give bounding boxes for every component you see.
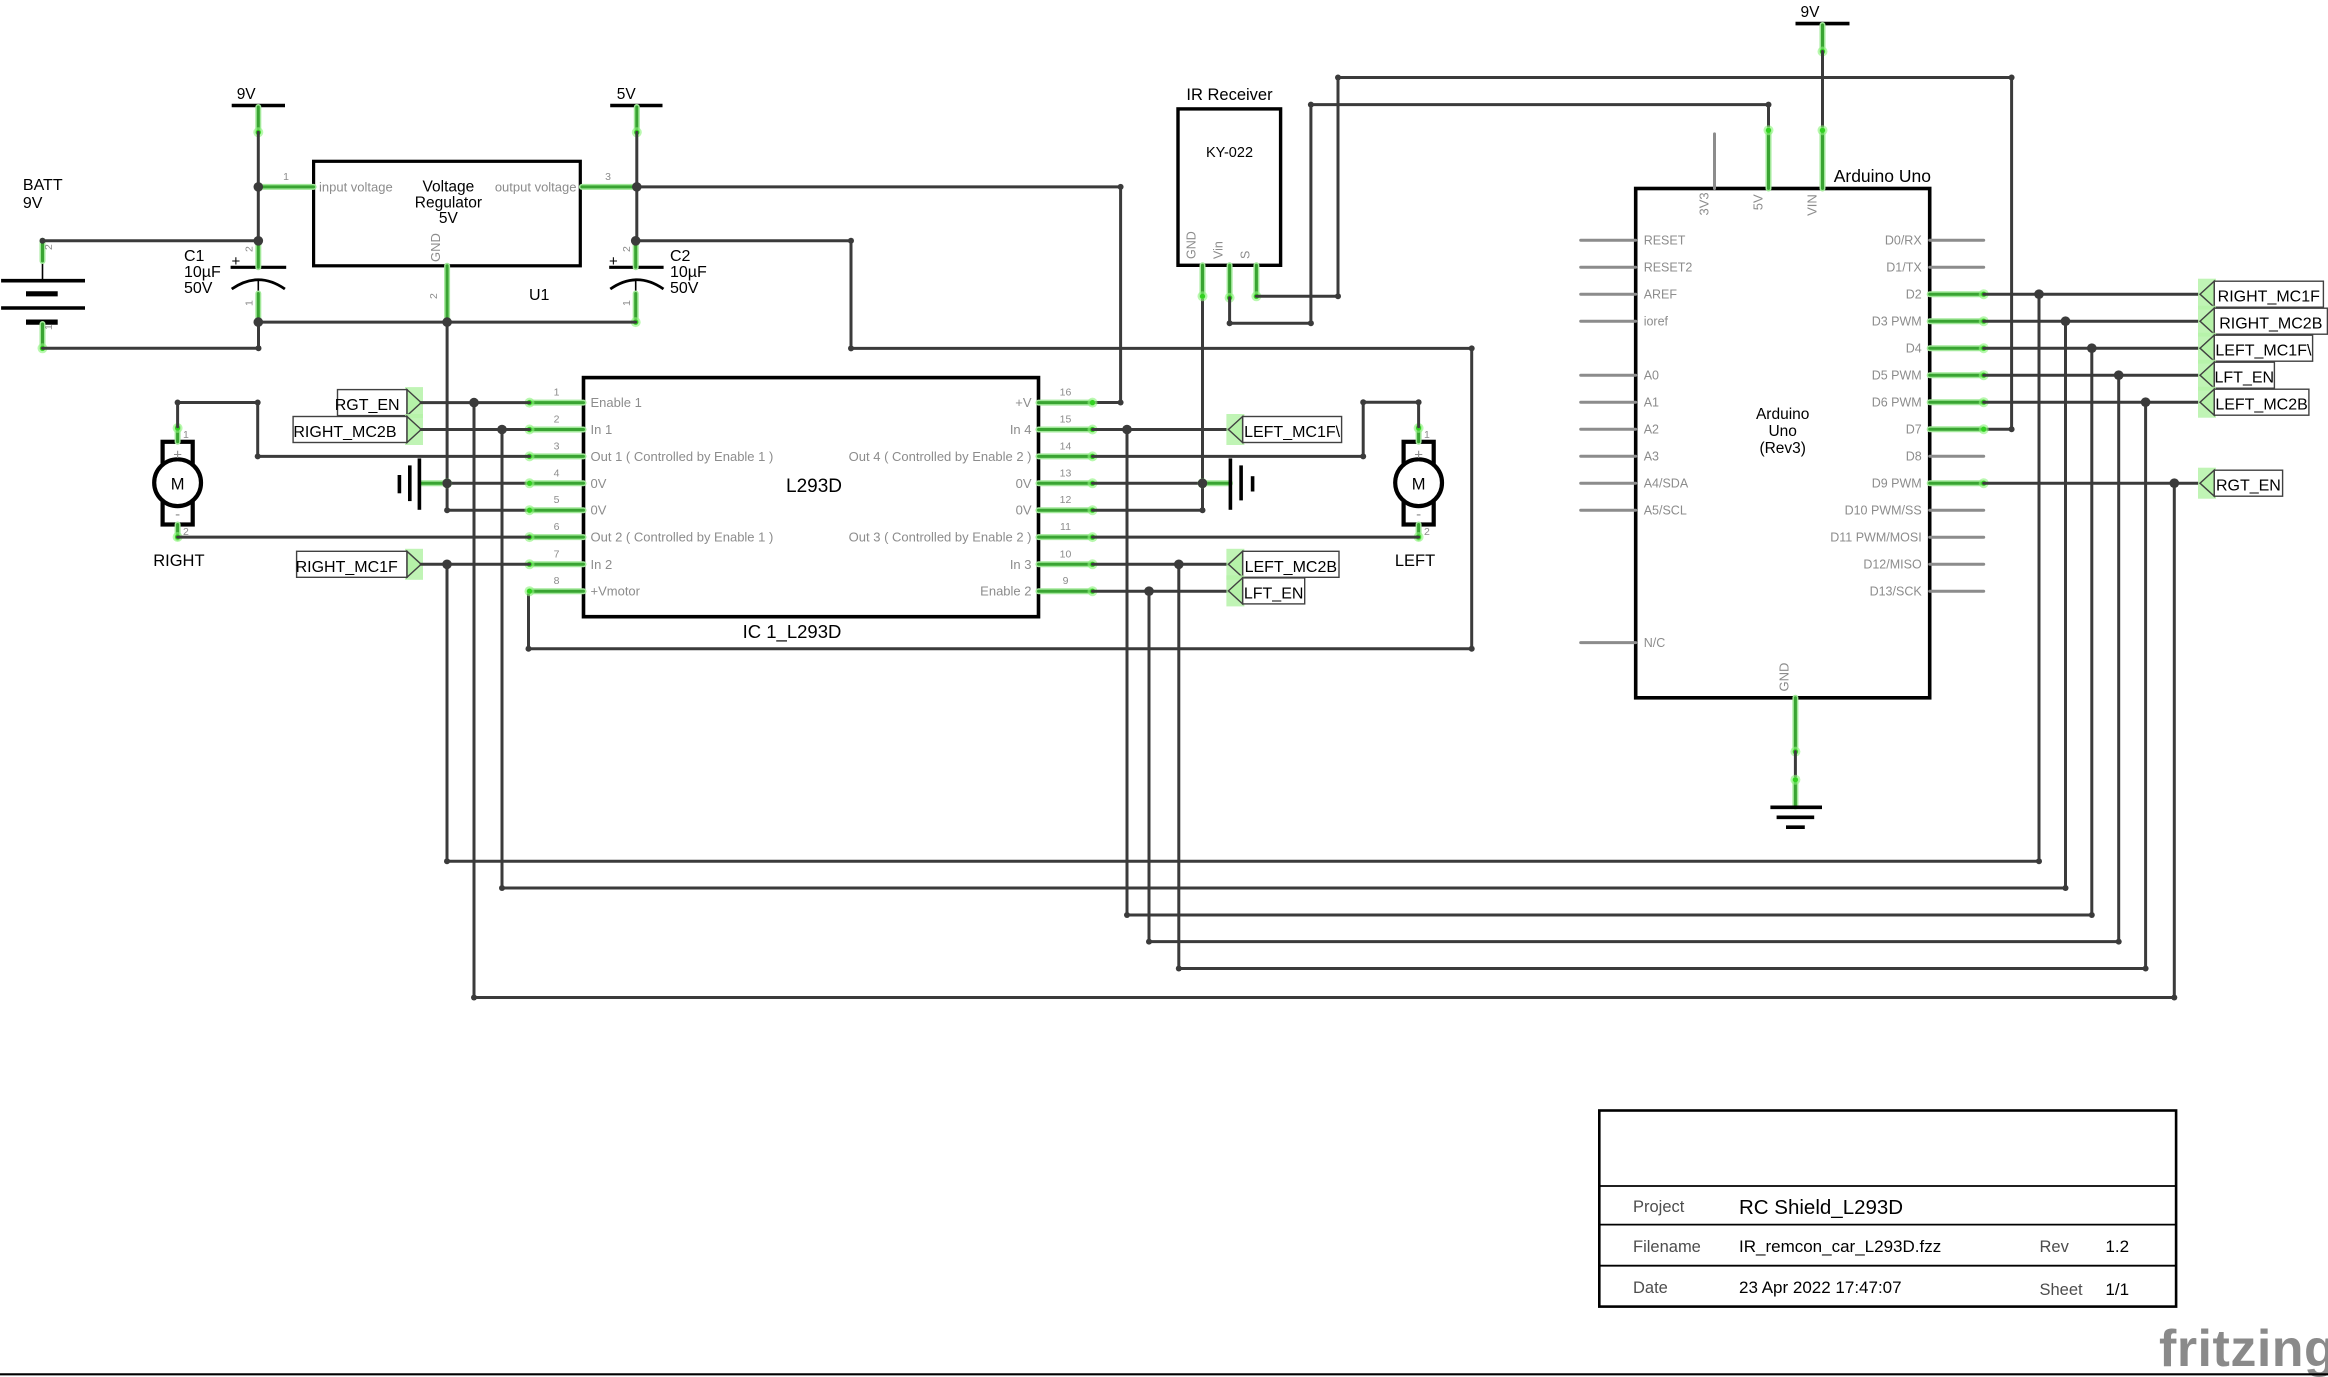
C1 pin number 2 (244, 246, 256, 252)
svg-text:Rev: Rev (2040, 1238, 2070, 1256)
net label LEFT_MC2B (ic side) (1226, 549, 1339, 580)
U1 title Regulator (415, 195, 482, 212)
svg-text:Arduino Uno: Arduino Uno (1834, 166, 1931, 186)
svg-text:6: 6 (554, 521, 560, 533)
svg-text:2: 2 (1424, 526, 1430, 538)
arduino pin label RESET (1644, 234, 1686, 248)
svg-text:Arduino: Arduino (1756, 406, 1809, 423)
svg-text:Out 2 ( Controlled by Enable 1: Out 2 ( Controlled by Enable 1 ) (591, 530, 774, 545)
svg-text:D6 PWM: D6 PWM (1872, 396, 1922, 410)
junction 9V / regulator input (253, 182, 263, 192)
arduino pin stub RESET (1581, 239, 1636, 242)
svg-text:10: 10 (1060, 548, 1072, 560)
svg-text:Out 1 ( Controlled by Enable 1: Out 1 ( Controlled by Enable 1 ) (591, 449, 774, 464)
svg-text:2: 2 (428, 293, 440, 299)
motor LEFT plus (1414, 447, 1423, 464)
svg-text:BATT: BATT (23, 177, 63, 194)
svg-text:L293D: L293D (786, 476, 842, 497)
svg-text:output voltage: output voltage (495, 180, 577, 195)
IC1 pin number 12 (1060, 494, 1072, 506)
wire ground to pin 5 (0V) (447, 509, 529, 512)
arduino pin label D1/TX (1886, 261, 1922, 275)
wire Out4 riser (1362, 402, 1365, 456)
svg-text:+: + (609, 253, 618, 270)
wire LFT_EN vertical (1148, 591, 1151, 941)
motor RIGHT terminals (163, 442, 193, 525)
svg-text:LEFT_MC1F\: LEFT_MC1F\ (1244, 424, 1341, 441)
IC1 pin 2 (In 1) (525, 425, 584, 435)
arduino inner label (Rev3) (1759, 440, 1806, 457)
arduino pin D6 PWM (1930, 397, 1989, 407)
IC1 pin label Enable 1 (591, 395, 642, 410)
net label LFT_EN (right) (2198, 360, 2274, 391)
node Out4 corner low (1360, 453, 1366, 459)
svg-text:Sheet: Sheet (2040, 1281, 2084, 1299)
node LEFT_MC1F bottom right corner (2089, 912, 2095, 918)
KY-022 pin label S (rotated) (1238, 251, 1252, 259)
svg-text:16: 16 (1060, 387, 1072, 399)
svg-text:0V: 0V (591, 503, 607, 518)
svg-text:IC 1_L293D: IC 1_L293D (743, 621, 842, 643)
IC1 pin 6 (Out 2 ( Controlled by Enable 1 )) (525, 532, 584, 542)
svg-text:D10 PWM/SS: D10 PWM/SS (1845, 504, 1922, 518)
arduino pin label A1 (1644, 396, 1659, 410)
motor RIGHT plus (173, 447, 182, 464)
node Vmotor bottom right corner (1469, 646, 1475, 652)
svg-text:In 4: In 4 (1010, 422, 1032, 437)
node RIGHT_MC2B bottom right corner (2063, 885, 2069, 891)
svg-text:1: 1 (43, 324, 55, 330)
capacitor C1 value 50V (184, 280, 213, 297)
svg-text:(Rev3): (Rev3) (1759, 440, 1806, 457)
node RGT_EN bottom left corner (471, 995, 477, 1001)
svg-text:13: 13 (1060, 467, 1072, 479)
capacitor C2 pin 1 (631, 294, 641, 328)
svg-text:1/1: 1/1 (2105, 1280, 2129, 1299)
motor LEFT minus (1416, 506, 1421, 523)
wire 5V run to L293D +V (vertical) (1119, 187, 1122, 403)
svg-text:0V: 0V (1016, 476, 1032, 491)
node Vin top left corner (1308, 102, 1314, 108)
wire LFT_EN right riser (2117, 375, 2120, 941)
wire ground bus C1 to C2 (258, 321, 635, 324)
net label RIGHT_MC2B (right) (2198, 306, 2327, 337)
wire Vmotor top run (851, 347, 1472, 350)
arduino pin label N/C (1644, 636, 1666, 650)
svg-text:Project: Project (1633, 1198, 1685, 1216)
wire RIGHT_MC2B vertical (501, 430, 504, 889)
node Vmotor run corner left (848, 345, 854, 351)
IC1 pin number 16 (1060, 387, 1072, 399)
node LEFT_MC2B bottom right corner (2143, 966, 2149, 972)
IC1 pin number 13 (1060, 467, 1072, 479)
arduino pin stub 3V3 (1713, 134, 1716, 189)
motor RIGHT pin number 1 (183, 429, 189, 441)
wire S top run (1338, 76, 2012, 79)
junction C2 pin2 node (631, 236, 641, 246)
IC1 pin label +V (1015, 395, 1032, 410)
wire D7 riser (2010, 78, 2013, 430)
wire D2 to RIGHT_MC1F label (1984, 293, 2199, 296)
svg-text:Voltage: Voltage (423, 179, 475, 196)
svg-text:1: 1 (183, 429, 189, 441)
ground symbol (earth, below arduino) (1770, 807, 1822, 827)
capacitor C2 plates (609, 267, 663, 293)
ir receiver KY-022 body (1178, 109, 1281, 265)
arduino pin label A2 (1644, 423, 1659, 437)
svg-text:D9 PWM: D9 PWM (1872, 477, 1922, 491)
title block value IR_remcon_car_L293D.fzz (1739, 1237, 1941, 1256)
wire Out4 pin14 run (1093, 455, 1364, 458)
capacitor C1 pin 1 (255, 294, 261, 323)
svg-text:23 Apr 2022 17:47:07: 23 Apr 2022 17:47:07 (1739, 1278, 1902, 1297)
arduino pin VIN (1818, 125, 1828, 188)
arduino pin stub AREF (1581, 293, 1636, 296)
svg-text:0V: 0V (591, 476, 607, 491)
node LEFT_MC2B bottom left corner (1176, 966, 1182, 972)
motor RIGHT pin 1 (173, 423, 183, 442)
node RGT_EN bottom right corner (2171, 995, 2177, 1001)
IC1 pin 12 (0V) (1039, 505, 1098, 515)
IC1 pin 13 (0V) (1039, 478, 1098, 488)
IC1 pin number 11 (1060, 521, 1071, 533)
svg-text:14: 14 (1060, 440, 1072, 452)
wire 9V bar to regulator input junction (257, 132, 260, 187)
arduino pin stub A5/SCL (1581, 509, 1636, 512)
wire RGT_EN right riser (2173, 483, 2176, 997)
title block value date (1739, 1278, 1902, 1297)
ic IC1 L293D body (584, 378, 1039, 617)
svg-text:N/C: N/C (1644, 636, 1666, 650)
svg-text:In 1: In 1 (591, 422, 613, 437)
svg-text:9V: 9V (23, 195, 43, 212)
IC1 pin 15 (In 4) (1039, 425, 1098, 435)
U1 pin number 3 (605, 171, 611, 183)
svg-text:10µF: 10µF (670, 264, 707, 281)
motor LEFT M (1412, 476, 1426, 494)
wire S riser (1337, 78, 1340, 297)
junction D2 riser (2034, 289, 2044, 299)
svg-text:2: 2 (43, 244, 55, 250)
arduino pin stub RESET2 (1581, 266, 1636, 269)
wire KY-022 GND vertical (1201, 296, 1204, 510)
svg-text:D0/RX: D0/RX (1885, 234, 1922, 248)
wire LEFT_MC2B right riser (2144, 402, 2147, 968)
wire LEFT_MC2B vertical (1177, 564, 1180, 968)
wire regulator input junction down to C1 junction (257, 187, 260, 241)
U1 pin number 2 (428, 293, 440, 299)
svg-text:+V: +V (1015, 395, 1032, 410)
9V top symbol pin (1818, 25, 1828, 57)
svg-text:+Vmotor: +Vmotor (591, 584, 641, 599)
svg-text:9V: 9V (1801, 4, 1821, 21)
U1 pin 2 (GND) (444, 266, 450, 320)
svg-text:RGT_EN: RGT_EN (335, 397, 400, 414)
junction RIGHT_MC1F at pin7 wire (442, 560, 452, 570)
IC1 pin label In 3 (1010, 557, 1032, 572)
svg-text:2: 2 (554, 414, 560, 426)
title block label Project (1633, 1198, 1685, 1216)
net label RIGHT_MC1F (left) (296, 549, 423, 580)
U1 title 5V (439, 210, 459, 227)
svg-text:Out 3 ( Controlled by Enable 2: Out 3 ( Controlled by Enable 2 ) (849, 530, 1032, 545)
svg-text:Enable 1: Enable 1 (591, 395, 642, 410)
wire Out1 pin3 run (258, 455, 530, 458)
wire Out1 riser (256, 403, 259, 457)
wire Enable2 pin9 to LFT_EN label (1093, 590, 1229, 593)
arduino pin 5V (1764, 125, 1774, 188)
wire Out3 pin11 to motor LEFT pin2 (1093, 536, 1419, 539)
motor RIGHT name (153, 552, 204, 570)
svg-text:fritzing: fritzing (2159, 1320, 2328, 1377)
node Out4 corner high (1360, 399, 1366, 405)
IC1 pin label Out 2 ( Controlled by Enable 1 ) (591, 530, 774, 545)
wire Out4 drop to motor LEFT pin1 (1417, 402, 1420, 427)
node D7 corner (2009, 426, 2015, 432)
wire output junction down to C2 junction (635, 187, 638, 241)
IC1 pin 9 (Enable 2) (1039, 586, 1098, 596)
svg-text:+: + (1414, 447, 1423, 464)
svg-text:2: 2 (621, 246, 633, 252)
node arduino 5V corner (1766, 102, 1772, 108)
9V symbol pin (253, 107, 263, 137)
arduino pin label GND (rotated) (1776, 663, 1791, 692)
ground symbol (left rail) (399, 458, 419, 509)
svg-text:9: 9 (1063, 575, 1069, 587)
svg-text:5: 5 (554, 494, 560, 506)
wire Enable1 label to pin1 (421, 401, 529, 404)
wire Out4 top run (1363, 401, 1418, 404)
svg-text:8: 8 (554, 575, 560, 587)
junction D9 riser (2170, 478, 2180, 488)
arduino pin D5 PWM (1930, 370, 1989, 380)
capacitor C1 plus sign (232, 253, 241, 270)
svg-text:VIN: VIN (1804, 194, 1819, 216)
arduino pin D7 (1930, 424, 1989, 434)
arduino pin label D7 (1906, 423, 1922, 437)
battery label BATT (23, 177, 63, 194)
svg-text:RIGHT_MC1F: RIGHT_MC1F (296, 559, 398, 576)
wire Vin drop (1228, 298, 1231, 324)
junction 5V / regulator output (632, 182, 642, 192)
arduino pin D4 (1930, 343, 1989, 353)
C2 pin number 1 (621, 300, 633, 306)
arduino pin label A5/SCL (1644, 504, 1687, 518)
svg-text:RIGHT: RIGHT (153, 552, 204, 570)
svg-text:A4/SDA: A4/SDA (1644, 477, 1689, 491)
svg-text:50V: 50V (184, 280, 213, 297)
svg-text:In 3: In 3 (1010, 557, 1032, 572)
svg-text:RIGHT_MC2B: RIGHT_MC2B (293, 424, 396, 441)
arduino inner label Uno (1768, 423, 1796, 440)
IC1 pin 7 (In 2) (525, 559, 584, 569)
arduino inner label Arduino (1756, 406, 1809, 423)
motor LEFT pin number 2 (1424, 526, 1430, 538)
svg-text:D1/TX: D1/TX (1886, 261, 1922, 275)
arduino pin label D9 PWM (1872, 477, 1922, 491)
node Vmotor run corner right (1469, 345, 1475, 351)
arduino Uno body (1636, 189, 1930, 698)
wire RIGHT_MC2B right riser (2064, 321, 2067, 888)
svg-text:LEFT_MC2B: LEFT_MC2B (2215, 397, 2307, 414)
wire RGT_EN bottom run (474, 996, 2174, 999)
KY-022 pin S (1251, 265, 1261, 301)
node Vmotor riser top corner (848, 238, 854, 244)
junction LEFT_MC1F at pin15 wire (1122, 425, 1132, 435)
svg-text:11: 11 (1060, 521, 1071, 533)
IC1 pin 11 (Out 3 ( Controlled by Enable 2 )) (1039, 532, 1098, 542)
net label LEFT_MC1F (right) (2198, 333, 2313, 364)
wire Vin jog right (1230, 322, 1311, 325)
arduino pin stub D1/TX (1930, 266, 1984, 269)
power symbol 9V (arduino VIN rail) (1796, 4, 1850, 24)
svg-text:M: M (171, 476, 185, 494)
svg-text:15: 15 (1060, 414, 1072, 426)
KY-022 pin GND (1198, 265, 1208, 301)
svg-text:5V: 5V (1750, 194, 1765, 210)
net label LEFT_MC1F (ic side) (1226, 414, 1341, 445)
IC1 pin number 9 (1063, 575, 1069, 587)
svg-text:LFT_EN: LFT_EN (1244, 585, 1304, 602)
arduino pin stub A4/SDA (1581, 482, 1636, 485)
arduino pin stub D11 PWM/MOSI (1930, 536, 1984, 539)
wire Vmotor bottom run (529, 647, 1472, 650)
net label RIGHT_MC1F (right) (2198, 279, 2323, 310)
IC1 pin label In 1 (591, 422, 613, 437)
IC1 pin 3 (Out 1 ( Controlled by Enable 1 )) (525, 451, 584, 461)
svg-text:1.2: 1.2 (2105, 1237, 2129, 1256)
title block frame (1599, 1111, 2176, 1307)
net label RIGHT_MC2B (left) (293, 414, 423, 445)
wire LFT_EN bottom run (1149, 940, 2119, 943)
svg-text:3V3: 3V3 (1696, 192, 1711, 215)
5V symbol pin (632, 107, 642, 137)
arduino pin GND (bottom) (1790, 698, 1800, 757)
net label RGT_EN (left) (335, 387, 423, 418)
bottom border line (0, 1373, 2328, 1375)
ir receiver part number KY-022 (1206, 145, 1253, 161)
arduino pin stub N/C (1581, 641, 1636, 644)
wire LEFT_MC1F vertical (1126, 430, 1129, 916)
wire Out1 top run to motor (178, 401, 258, 404)
motor LEFT body circle (1395, 459, 1442, 506)
svg-text:D2: D2 (1906, 288, 1922, 302)
svg-text:A1: A1 (1644, 396, 1659, 410)
battery pin 2 (40, 241, 46, 261)
svg-text:-: - (175, 506, 180, 523)
motor LEFT terminals (1404, 442, 1434, 525)
KY-022 pin label Vin (rotated) (1212, 241, 1226, 259)
U1 title Voltage (423, 179, 475, 196)
motor LEFT pin number 1 (1424, 429, 1430, 441)
capacitor C1 plates (231, 267, 287, 293)
node battery minus corner (256, 345, 262, 351)
arduino pin label A4/SDA (1644, 477, 1689, 491)
arduino pin label ioref (1644, 315, 1669, 329)
svg-text:D8: D8 (1906, 450, 1922, 464)
battery label 9V (23, 195, 43, 212)
arduino pin label D4 (1906, 342, 1922, 356)
arduino pin label AREF (1644, 288, 1678, 302)
wire battery minus run (43, 347, 259, 350)
junction C1 pin1 / ground bus (253, 317, 263, 327)
wire Vin top run to arduino 5V (1311, 103, 1769, 106)
title block value RC Shield_L293D (1739, 1196, 1903, 1219)
IC1 pin label 0V (1016, 503, 1032, 518)
arduino pin label D13/SCK (1870, 585, 1923, 599)
arduino pin label A3 (1644, 450, 1659, 464)
motor LEFT pin 2 (1414, 525, 1424, 543)
title block label Rev (2040, 1238, 2070, 1256)
svg-text:1: 1 (1424, 429, 1430, 441)
junction D3 riser (2061, 316, 2071, 326)
arduino pin stub D8 (1930, 455, 1984, 458)
wire 5V run to L293D +V (horizontal) (637, 185, 1121, 188)
wire In2 label to pin7 (421, 563, 529, 566)
svg-text:LEFT: LEFT (1395, 552, 1435, 570)
node S riser bottom corner (1335, 293, 1341, 299)
power symbol 5V (regulator output) (610, 86, 662, 106)
node battery plus corner (40, 238, 46, 244)
wire In1 label to pin2 (421, 428, 529, 431)
capacitor C1 value 10uF (184, 264, 221, 281)
svg-text:U1: U1 (529, 287, 550, 304)
node RIGHT_MC1F bottom right corner (2036, 858, 2042, 864)
capacitor C2 value 10uF (670, 264, 707, 281)
node LEFT_MC1F bottom left corner (1124, 912, 1130, 918)
wire D6 to LEFT_MC2B label (1984, 401, 2199, 404)
svg-text:A0: A0 (1644, 369, 1659, 383)
svg-text:D12/MISO: D12/MISO (1863, 558, 1922, 572)
net label LFT_EN (ic side) (1226, 575, 1304, 606)
svg-text:A5/SCL: A5/SCL (1644, 504, 1687, 518)
U1 pin label input voltage (319, 180, 393, 195)
motor RIGHT M (171, 476, 185, 494)
node ground pin5 corner (444, 507, 450, 513)
svg-text:GND: GND (1185, 231, 1199, 259)
arduino pin label D12/MISO (1863, 558, 1922, 572)
motor RIGHT body circle (154, 459, 201, 506)
svg-text:+: + (232, 253, 241, 270)
U1 pin 3 (output) (582, 184, 637, 190)
node LFT_EN bottom right corner (2116, 939, 2122, 945)
KY-022 pin Vin (1225, 265, 1235, 302)
svg-text:+: + (173, 447, 182, 464)
junction ground / pin4 / symbol (442, 479, 452, 489)
node 5V run lower corner (1118, 400, 1124, 406)
wire D9 to RGT_EN label (1984, 482, 2199, 485)
node 5V run upper corner (1118, 184, 1124, 190)
wire battery plus to C1 top junction (43, 239, 259, 242)
node motor LEFT pin1 corner (1416, 399, 1422, 405)
arduino pin stub A3 (1581, 455, 1636, 458)
svg-text:Out 4 ( Controlled by Enable 2: Out 4 ( Controlled by Enable 2 ) (849, 449, 1032, 464)
svg-text:4: 4 (554, 467, 560, 479)
U1 pin label output voltage (495, 180, 577, 195)
wire 5V run into pin 16 (1093, 401, 1121, 404)
arduino pin label D11 PWM/MOSI (1830, 531, 1921, 545)
junction D6 riser (2141, 397, 2151, 407)
svg-text:1: 1 (554, 387, 560, 399)
IC1 pin number 10 (1060, 548, 1072, 560)
junction LFT_EN at pin9 wire (1144, 586, 1154, 596)
svg-text:-: - (1416, 506, 1421, 523)
arduino pin D2 (1930, 289, 1989, 299)
ground symbol stub (right) (1198, 478, 1231, 488)
svg-text:LFT_EN: LFT_EN (2215, 370, 2275, 387)
battery pin 1 (38, 324, 48, 353)
wire RIGHT_MC1F right riser (2038, 294, 2041, 861)
